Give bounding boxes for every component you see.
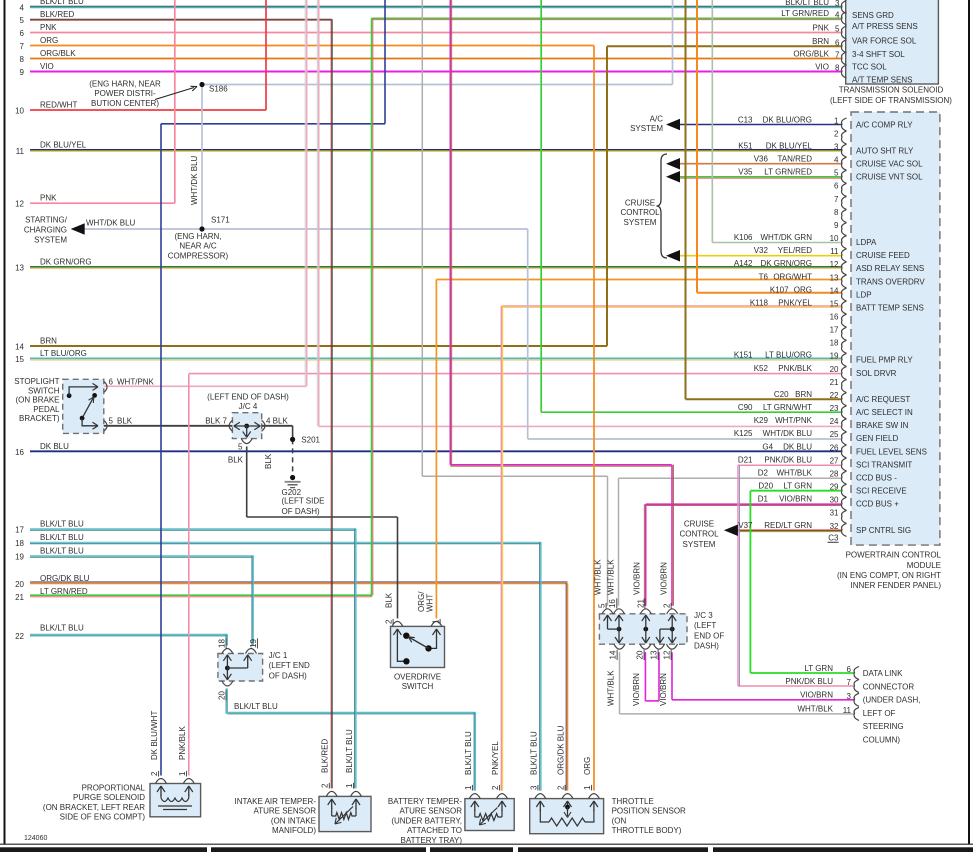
svg-text:POSITION SENSOR: POSITION SENSOR [612,807,686,816]
svg-text:D21: D21 [738,455,753,464]
svg-text:A/C SELECT IN: A/C SELECT IN [856,408,913,417]
svg-text:ASD RELAY SENS: ASD RELAY SENS [856,264,924,273]
svg-text:LT GRN/RED: LT GRN/RED [40,587,88,596]
svg-text:BRN: BRN [40,337,57,346]
svg-text:WHT/BLK: WHT/BLK [594,559,603,595]
svg-text:BATT TEMP SENS: BATT TEMP SENS [856,303,924,312]
svg-text:28: 28 [830,469,839,478]
svg-text:19: 19 [15,552,24,561]
svg-text:BLK/RED: BLK/RED [321,739,330,773]
svg-text:OVERDRIVE: OVERDRIVE [394,673,441,682]
svg-text:FUEL LEVEL SENS: FUEL LEVEL SENS [856,447,927,456]
svg-text:J/C 4: J/C 4 [239,402,258,411]
svg-text:INTAKE AIR TEMPER-: INTAKE AIR TEMPER- [235,797,317,806]
svg-text:2: 2 [150,771,159,776]
svg-text:LDPA: LDPA [856,238,877,247]
svg-text:13: 13 [830,273,839,282]
svg-text:2: 2 [834,129,839,138]
svg-text:TRANS OVERDRV: TRANS OVERDRV [856,277,925,286]
svg-text:20: 20 [830,365,839,374]
svg-text:4: 4 [20,4,25,13]
svg-text:ORG: ORG [794,285,812,294]
svg-text:VIO/BRN: VIO/BRN [632,673,641,706]
svg-text:PEDAL: PEDAL [33,405,60,414]
svg-text:SYSTEM: SYSTEM [630,124,663,133]
svg-text:1: 1 [583,785,592,790]
svg-text:BLK/LT BLU: BLK/LT BLU [40,546,84,555]
svg-text:ORG/WHT: ORG/WHT [773,272,812,281]
svg-text:1: 1 [834,116,839,125]
svg-text:1: 1 [178,771,187,776]
svg-text:SYSTEM: SYSTEM [683,540,716,549]
svg-text:(LEFT END: (LEFT END [269,661,310,670]
svg-text:CRUISE VAC SOL: CRUISE VAC SOL [856,160,923,169]
svg-text:RED/LT GRN: RED/LT GRN [764,521,812,530]
svg-text:LT GRN/RED: LT GRN/RED [764,168,812,177]
svg-text:4 BLK: 4 BLK [266,416,288,425]
svg-text:ORG: ORG [583,757,592,775]
svg-text:V35: V35 [738,168,753,177]
svg-text:VIO/BRN: VIO/BRN [800,691,833,700]
svg-text:(ON: (ON [612,816,627,825]
svg-text:LT GRN/RED: LT GRN/RED [781,9,829,18]
svg-text:6: 6 [109,378,114,387]
svg-text:21: 21 [15,593,24,602]
svg-text:K118: K118 [750,298,769,307]
svg-text:COMPRESSOR): COMPRESSOR) [168,251,229,260]
svg-text:16: 16 [608,599,617,608]
svg-text:BLK/LT BLU: BLK/LT BLU [345,729,354,773]
svg-text:7: 7 [835,51,840,60]
svg-text:20: 20 [636,650,645,659]
svg-text:6: 6 [834,182,839,191]
svg-text:SCI RECEIVE: SCI RECEIVE [856,487,907,496]
svg-text:7: 7 [847,678,852,687]
svg-text:(LEFT SIDE: (LEFT SIDE [282,497,325,506]
svg-text:WHT/DK BLU: WHT/DK BLU [190,155,199,205]
svg-text:WHT/PNK: WHT/PNK [775,416,813,425]
svg-text:VAR FORCE SOL: VAR FORCE SOL [852,36,917,45]
svg-text:LT GRN: LT GRN [804,664,833,673]
svg-text:8: 8 [20,55,25,64]
svg-text:DK BLU/ORG: DK BLU/ORG [763,115,812,124]
svg-text:20: 20 [218,691,227,700]
svg-text:BLK/LT BLU: BLK/LT BLU [40,623,84,632]
svg-text:WHT: WHT [426,594,435,612]
svg-text:DATA LINK: DATA LINK [863,669,903,678]
svg-text:PNK/YEL: PNK/YEL [491,741,500,775]
svg-text:WHT/BLK: WHT/BLK [607,670,616,706]
svg-text:18: 18 [218,639,227,648]
svg-text:3: 3 [847,692,852,701]
svg-text:30: 30 [830,496,839,505]
svg-text:(LEFT END OF DASH): (LEFT END OF DASH) [207,393,289,402]
svg-text:G4: G4 [762,442,773,451]
svg-text:BRN: BRN [812,37,829,46]
svg-text:2: 2 [663,603,672,608]
svg-text:SWITCH: SWITCH [28,386,60,395]
svg-text:CONTROL: CONTROL [679,530,719,539]
svg-text:(UNDER DASH,: (UNDER DASH, [863,696,921,705]
svg-text:OF DASH): OF DASH) [269,671,308,680]
svg-text:VIO: VIO [40,62,54,71]
svg-text:11: 11 [16,147,25,156]
svg-text:17: 17 [15,525,24,534]
svg-text:MODULE: MODULE [907,561,941,570]
svg-text:BLK/RED: BLK/RED [40,10,74,19]
svg-text:DK GRN/ORG: DK GRN/ORG [760,259,812,268]
svg-text:C90: C90 [738,403,753,412]
svg-text:26: 26 [830,443,839,452]
svg-text:VIO/BRN: VIO/BRN [660,562,669,595]
svg-text:BLK/LT BLU: BLK/LT BLU [529,731,538,775]
svg-text:ATURE SENSOR: ATURE SENSOR [399,807,462,816]
svg-text:9: 9 [834,221,839,230]
svg-text:6: 6 [847,665,852,674]
svg-text:(IN ENG COMPT, ON RIGHT: (IN ENG COMPT, ON RIGHT [837,571,941,580]
svg-text:(ON BRAKE: (ON BRAKE [15,396,59,405]
svg-text:15: 15 [830,299,839,308]
svg-text:LT BLU/ORG: LT BLU/ORG [765,351,812,360]
svg-text:SENS GRD: SENS GRD [852,11,894,20]
svg-text:VIO/BRN: VIO/BRN [632,562,641,595]
svg-text:8: 8 [835,64,840,73]
svg-text:BLK/LT BLU: BLK/LT BLU [785,0,829,7]
svg-text:WHT/BLK: WHT/BLK [607,559,616,595]
svg-text:20: 20 [15,580,24,589]
svg-text:ATTACHED TO: ATTACHED TO [407,826,462,835]
svg-text:8: 8 [834,208,839,217]
svg-text:K51: K51 [738,141,753,150]
svg-text:BLK: BLK [385,592,394,608]
svg-text:END OF: END OF [694,631,724,640]
svg-text:PNK/DK BLU: PNK/DK BLU [764,455,812,464]
svg-text:(LEFT: (LEFT [694,621,716,630]
svg-text:A/T TEMP SENS: A/T TEMP SENS [852,75,912,84]
svg-text:(LEFT SIDE OF TRANSMISSION): (LEFT SIDE OF TRANSMISSION) [830,96,952,105]
svg-text:(ENG HARN,: (ENG HARN, [174,232,221,241]
svg-text:24: 24 [830,417,839,426]
svg-text:(ON BRACKET, LEFT REAR: (ON BRACKET, LEFT REAR [43,803,145,812]
svg-text:10: 10 [830,234,839,243]
svg-text:21: 21 [636,599,645,608]
svg-text:A/C REQUEST: A/C REQUEST [856,395,910,404]
svg-text:SCI TRANSMIT: SCI TRANSMIT [856,460,912,469]
svg-text:CCD BUS +: CCD BUS + [856,500,899,509]
svg-text:A/C: A/C [650,115,664,124]
svg-text:5: 5 [834,169,839,178]
svg-text:DK BLU: DK BLU [40,442,69,451]
svg-text:CRUISE FEED: CRUISE FEED [856,251,910,260]
svg-text:5: 5 [598,603,607,608]
svg-text:TRANSMISSION SOLENOID: TRANSMISSION SOLENOID [839,86,944,95]
svg-text:2: 2 [491,785,500,790]
svg-text:5: 5 [20,16,25,25]
svg-text:7: 7 [834,195,839,204]
svg-text:BRAKE SW IN: BRAKE SW IN [856,421,909,430]
svg-text:FUEL PMP RLY: FUEL PMP RLY [856,356,913,365]
svg-text:MANIFOLD): MANIFOLD) [272,826,316,835]
svg-text:17: 17 [830,326,839,335]
svg-text:V37: V37 [738,521,753,530]
svg-text:LDP: LDP [856,290,872,299]
svg-text:THROTTLE: THROTTLE [612,797,654,806]
svg-text:YEL/RED: YEL/RED [778,246,812,255]
svg-text:23: 23 [830,404,839,413]
svg-text:RED/WHT: RED/WHT [40,101,77,110]
svg-text:SOL DRVR: SOL DRVR [856,369,897,378]
svg-text:STOPLIGHT: STOPLIGHT [14,377,59,386]
svg-text:19: 19 [830,352,839,361]
svg-text:STARTING/: STARTING/ [25,215,68,224]
svg-text:(UNDER BATTERY,: (UNDER BATTERY, [391,816,462,825]
svg-text:2: 2 [557,785,566,790]
svg-text:PNK: PNK [813,23,830,32]
svg-text:BLK: BLK [228,456,244,465]
svg-text:BATTERY TRAY): BATTERY TRAY) [401,836,463,845]
svg-text:6: 6 [20,29,25,38]
svg-text:SWITCH: SWITCH [402,682,434,691]
svg-text:25: 25 [830,430,839,439]
svg-text:WHT/DK BLU: WHT/DK BLU [763,429,813,438]
svg-text:3: 3 [529,785,538,790]
svg-text:S201: S201 [301,436,320,445]
svg-text:DK BLU/YEL: DK BLU/YEL [40,140,87,149]
svg-text:D2: D2 [758,468,769,477]
svg-text:1: 1 [432,619,441,624]
svg-text:S186: S186 [209,85,228,94]
svg-text:CONNECTOR: CONNECTOR [863,682,915,691]
svg-text:11: 11 [843,706,852,715]
svg-text:7: 7 [20,42,25,51]
svg-text:T6: T6 [759,272,769,281]
svg-text:BLK: BLK [117,417,133,426]
svg-text:K107: K107 [770,285,789,294]
svg-text:14: 14 [830,286,839,295]
svg-text:NEAR A/C: NEAR A/C [179,242,217,251]
svg-text:31: 31 [830,509,839,518]
svg-text:6: 6 [835,38,840,47]
svg-text:WHT/BLK: WHT/BLK [797,705,833,714]
svg-text:ORG/BLK: ORG/BLK [793,49,829,58]
svg-text:D1: D1 [758,495,769,504]
svg-text:13: 13 [650,650,659,659]
svg-text:(ON INTAKE: (ON INTAKE [271,816,316,825]
svg-text:WHT/PNK: WHT/PNK [117,378,155,387]
svg-text:PNK/DK BLU: PNK/DK BLU [785,677,833,686]
svg-text:K52: K52 [754,364,769,373]
svg-text:CCD BUS -: CCD BUS - [856,473,897,482]
svg-text:(ENG HARN, NEAR: (ENG HARN, NEAR [89,80,161,89]
svg-text:BLK/LT BLU: BLK/LT BLU [40,519,84,528]
svg-text:12: 12 [830,260,839,269]
svg-text:SIDE OF ENG COMPT): SIDE OF ENG COMPT) [60,813,146,822]
svg-text:5: 5 [835,25,840,34]
svg-text:C3: C3 [828,533,839,542]
svg-text:LEFT OF: LEFT OF [863,709,896,718]
svg-text:9: 9 [20,68,25,77]
svg-text:COLUMN): COLUMN) [863,736,901,745]
svg-text:BUTION CENTER): BUTION CENTER) [91,99,159,108]
svg-text:WHT/DK BLU: WHT/DK BLU [86,219,136,228]
svg-text:BLK/LT BLU: BLK/LT BLU [234,702,278,711]
svg-text:DK GRN/ORG: DK GRN/ORG [40,257,92,266]
svg-text:4: 4 [835,10,840,19]
svg-text:32: 32 [830,522,839,531]
svg-text:V36: V36 [754,155,769,164]
svg-text:LT BLU/ORG: LT BLU/ORG [40,349,87,358]
svg-text:ORG/DK BLU: ORG/DK BLU [40,574,90,583]
svg-text:PNK/BLK: PNK/BLK [778,364,812,373]
svg-text:16: 16 [830,313,839,322]
svg-text:VIO: VIO [815,62,829,71]
svg-text:POWER DISTRI-: POWER DISTRI- [94,89,156,98]
svg-text:DK BLU/WHT: DK BLU/WHT [150,711,159,760]
svg-text:3-4 SHFT SOL: 3-4 SHFT SOL [852,50,905,59]
svg-text:3: 3 [834,142,839,151]
svg-text:1: 1 [464,785,473,790]
svg-text:STEERING: STEERING [863,722,904,731]
svg-text:CRUISE: CRUISE [625,199,655,208]
svg-text:K125: K125 [734,429,753,438]
svg-text:22: 22 [15,632,24,641]
svg-text:SP CNTRL SIG: SP CNTRL SIG [856,526,911,535]
svg-text:THROTTLE BODY): THROTTLE BODY) [612,826,682,835]
svg-text:13: 13 [15,263,24,272]
svg-text:10: 10 [15,107,24,116]
svg-text:BRN: BRN [795,390,812,399]
svg-text:ATURE SENSOR: ATURE SENSOR [253,807,316,816]
svg-text:ORG: ORG [40,36,58,45]
svg-text:V32: V32 [754,246,769,255]
svg-text:DASH): DASH) [694,642,719,651]
svg-text:GEN FIELD: GEN FIELD [856,434,898,443]
svg-text:27: 27 [830,456,839,465]
svg-text:LT GRN: LT GRN [783,482,812,491]
svg-text:SYSTEM: SYSTEM [34,235,67,244]
svg-text:DK BLU: DK BLU [783,442,812,451]
svg-text:C20: C20 [774,390,789,399]
svg-text:PURGE SOLENOID: PURGE SOLENOID [73,793,145,802]
svg-text:11: 11 [830,247,839,256]
svg-text:2: 2 [385,619,394,624]
svg-text:4: 4 [834,156,839,165]
svg-text:PROPORTIONAL: PROPORTIONAL [82,784,146,793]
svg-text:K151: K151 [734,351,753,360]
svg-text:WHT/DK GRN: WHT/DK GRN [760,233,812,242]
svg-text:12: 12 [15,200,24,209]
svg-text:PNK/BLK: PNK/BLK [178,726,187,760]
svg-text:21: 21 [830,378,839,387]
svg-text:CRUISE: CRUISE [684,520,714,529]
svg-text:C13: C13 [738,115,753,124]
svg-text:CONTROL: CONTROL [620,208,660,217]
svg-text:BLK/LT BLU: BLK/LT BLU [40,533,84,542]
svg-text:POWERTRAIN CONTROL: POWERTRAIN CONTROL [846,551,942,560]
svg-text:TCC SOL: TCC SOL [852,62,887,71]
svg-text:16: 16 [15,448,24,457]
svg-text:G202: G202 [282,488,302,497]
svg-text:VIO/BRN: VIO/BRN [659,673,668,706]
svg-text:J/C 1: J/C 1 [269,651,288,660]
svg-text:ORG/DK BLU: ORG/DK BLU [557,725,566,775]
svg-text:K106: K106 [734,233,753,242]
svg-text:DK BLU/YEL: DK BLU/YEL [766,141,813,150]
svg-text:K29: K29 [754,416,769,425]
svg-text:S171: S171 [211,216,230,225]
svg-text:124060: 124060 [24,835,47,842]
svg-text:14: 14 [15,343,24,352]
svg-text:BLK: BLK [264,453,273,469]
svg-text:14: 14 [609,650,618,659]
svg-text:A142: A142 [734,259,753,268]
svg-text:22: 22 [830,391,839,400]
svg-text:TAN/RED: TAN/RED [777,155,812,164]
svg-text:19: 19 [249,639,258,648]
svg-text:OF DASH): OF DASH) [282,507,321,516]
svg-text:BATTERY TEMPER-: BATTERY TEMPER- [388,797,462,806]
svg-text:BRACKET): BRACKET) [19,414,60,423]
svg-text:18: 18 [830,339,839,348]
svg-text:29: 29 [830,483,839,492]
svg-text:BLK 7: BLK 7 [205,416,227,425]
svg-text:AUTO SHT RLY: AUTO SHT RLY [856,146,914,155]
svg-text:WHT/BLK: WHT/BLK [776,468,812,477]
svg-text:3: 3 [835,0,840,8]
svg-text:LT GRN/WHT: LT GRN/WHT [763,403,812,412]
svg-text:PNK: PNK [40,194,57,203]
svg-text:5: 5 [238,443,243,452]
svg-text:SYSTEM: SYSTEM [624,218,657,227]
svg-text:18: 18 [15,539,24,548]
svg-text:CRUISE VNT SOL: CRUISE VNT SOL [856,173,923,182]
svg-text:12: 12 [663,650,672,659]
svg-text:PNK/YEL: PNK/YEL [778,298,812,307]
svg-text:2: 2 [321,783,330,788]
svg-text:A/C COMP RLY: A/C COMP RLY [856,120,913,129]
svg-text:J/C 3: J/C 3 [694,611,713,620]
svg-text:CHARGING: CHARGING [24,225,67,234]
svg-text:BLK/LT BLU: BLK/LT BLU [40,0,84,6]
svg-text:ORG/BLK: ORG/BLK [40,49,76,58]
svg-text:BLK/LT BLU: BLK/LT BLU [464,731,473,775]
svg-text:PNK: PNK [40,23,57,32]
svg-text:15: 15 [15,355,24,364]
svg-text:5: 5 [109,417,114,426]
svg-text:INNER FENDER PANEL): INNER FENDER PANEL) [850,581,941,590]
svg-text:D20: D20 [758,482,773,491]
svg-text:1: 1 [345,783,354,788]
svg-text:A/T PRESS SENS: A/T PRESS SENS [852,22,918,31]
svg-text:VIO/BRN: VIO/BRN [779,495,812,504]
